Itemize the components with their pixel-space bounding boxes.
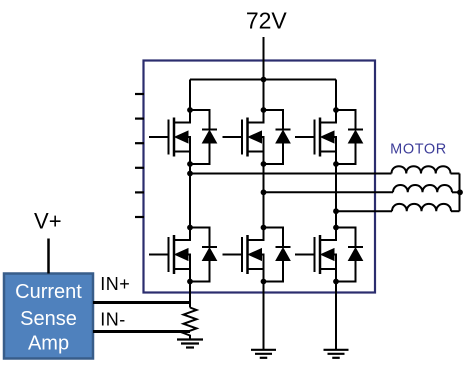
ground (shunt return) <box>177 340 203 348</box>
gate input pin tick 1 <box>135 93 144 95</box>
inductor L3 (motor winding) <box>392 204 451 211</box>
resistor R-shunt (current sense shunt) <box>184 308 197 340</box>
ground (phase B leg) <box>251 350 276 358</box>
diode D5 (body diode of same leg) <box>264 228 291 282</box>
transistor Q4 (N-MOSFET) <box>149 228 190 282</box>
svg-text:MOTOR: MOTOR <box>390 142 447 158</box>
op-amp U1: Current Sense Amp block <box>4 274 93 359</box>
wire: L2 to star point <box>452 191 460 193</box>
svg-text:Current: Current <box>15 281 82 303</box>
svg-text:Amp: Amp <box>28 333 69 355</box>
wire: IN- sense line to bottom of shunt <box>93 330 190 333</box>
node: high-side source, phase B leg <box>261 161 267 167</box>
node: phase A tap <box>187 171 193 177</box>
ground (phase C leg) <box>324 350 349 358</box>
node: Q high-side drain, phase C leg <box>333 107 339 113</box>
svg-text:IN-: IN- <box>100 310 126 330</box>
svg-text:IN+: IN+ <box>100 274 130 294</box>
wire: L1 to star point <box>451 173 460 175</box>
gate input pin tick 4 <box>135 167 144 169</box>
gate input pin tick 2 <box>135 117 144 119</box>
diode D6 (body diode of same leg) <box>336 228 363 282</box>
svg-text:V+: V+ <box>34 209 62 234</box>
transistor Q1 (N-MOSFET) <box>149 110 190 164</box>
diode D2 (body diode of same leg) <box>264 110 291 164</box>
node: low-side source, phase B leg <box>261 279 267 285</box>
wire: Q4 source to shunt resistor <box>189 282 191 308</box>
node: low-side drain, phase A leg <box>187 225 193 231</box>
wire: phase A half-bridge midpoint vertical <box>189 164 191 228</box>
transistor Q3 (N-MOSFET) <box>295 110 336 164</box>
wire: rail drop to Q3 drain <box>335 80 337 111</box>
wire: V+ supply stub into amp <box>47 239 50 274</box>
label Current Sense Amp <box>15 281 82 355</box>
wire: top supply rail <box>190 79 336 81</box>
node: low-side source, phase C leg <box>333 279 339 285</box>
node: high-side source, phase A leg <box>187 161 193 167</box>
wire: phase C half-bridge midpoint vertical <box>335 164 337 228</box>
gate input pin tick 3 <box>135 142 144 144</box>
svg-text:72V: 72V <box>246 7 288 33</box>
node: low-side drain, phase B leg <box>261 225 267 231</box>
wire: Q6 source to ground <box>335 282 337 350</box>
wire: IN+ sense line to top of shunt <box>93 301 190 304</box>
transistor Q6 (N-MOSFET) <box>295 228 336 282</box>
gate input pin tick 5 <box>135 191 144 193</box>
wire: phase B half-bridge midpoint vertical <box>263 164 265 228</box>
wire: 72V supply drop to top rail and Q2 drain <box>263 37 265 110</box>
transistor Q2 (N-MOSFET) <box>223 110 264 164</box>
svg-text:Sense: Sense <box>20 308 77 330</box>
wire: phase A output to motor <box>190 173 392 175</box>
diode D3 (body diode of same leg) <box>336 110 363 164</box>
node: low-side source, phase A leg <box>187 279 193 285</box>
node: motor star point <box>457 189 463 195</box>
diode D1 (body diode of same leg) <box>190 110 217 164</box>
diode D4 (body diode of same leg) <box>190 228 217 282</box>
node: phase B tap <box>261 189 267 195</box>
wire: rail drop to Q1 drain <box>189 80 191 111</box>
wire: Q5 source to ground <box>263 282 265 350</box>
node: low-side drain, phase C leg <box>333 225 339 231</box>
node: rail / 72V junction <box>261 77 267 83</box>
node: Q high-side drain, phase B leg <box>261 107 267 113</box>
wire: phase B output to motor <box>264 191 394 193</box>
inductor L1 (motor winding) <box>392 166 451 173</box>
node: Q high-side drain, phase A leg <box>187 107 193 113</box>
transistor Q5 (N-MOSFET) <box>223 228 264 282</box>
inductor L2 (motor winding) <box>393 185 452 192</box>
node: phase C tap <box>333 208 339 214</box>
wire: L3 to star point <box>451 210 460 212</box>
wire: motor star-point vertical <box>459 174 461 212</box>
gate input pin tick 6 <box>135 216 144 218</box>
bridge module outline box <box>144 61 376 293</box>
wire: phase C output to motor <box>336 210 392 212</box>
node: high-side source, phase C leg <box>333 161 339 167</box>
